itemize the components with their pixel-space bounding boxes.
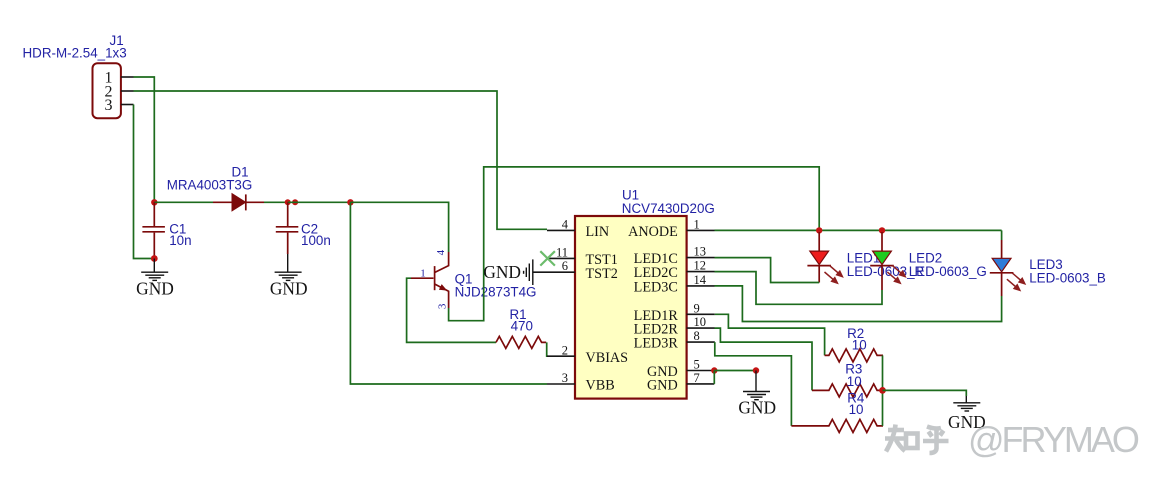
svg-text:GND: GND [483, 262, 521, 282]
svg-text:LED3C: LED3C [634, 280, 678, 296]
C1 label [169, 221, 186, 236]
wire ANODE rail [715, 229, 1002, 231]
wire Q1 emitter to anode rail [449, 167, 820, 321]
node rail-C1 [151, 199, 157, 205]
LED1 label [847, 250, 881, 265]
svg-text:HDR-M-2.54_1x3: HDR-M-2.54_1x3 [23, 45, 127, 60]
U1 pin 2 VBIAS [547, 343, 628, 366]
svg-text:8: 8 [694, 329, 700, 343]
R2 label [847, 326, 864, 341]
R4 label [847, 391, 865, 406]
wire anode to LED3 [1001, 230, 1003, 240]
LED2 value LED-0603_G [909, 264, 987, 279]
transistor Q1 [411, 252, 449, 308]
svg-text:2: 2 [562, 343, 568, 357]
svg-text:7: 7 [694, 371, 700, 385]
C2 value 100n [301, 233, 331, 248]
svg-text:@FRYMAO: @FRYMAO [968, 419, 1139, 460]
ground right of resistors [948, 396, 986, 432]
svg-text:LED3R: LED3R [634, 336, 679, 352]
svg-text:NJD2873T4G: NJD2873T4G [455, 285, 537, 300]
Q1 value NJD2873T4G [455, 285, 537, 300]
capacitor C2 [276, 202, 299, 254]
wire J1 pin2 to U1 LIN [134, 91, 548, 229]
svg-text:3: 3 [436, 303, 448, 309]
wire rail left segment [154, 201, 213, 203]
U1 pin 1 ANODE [628, 217, 714, 240]
watermark 知 [885, 425, 918, 452]
U1 pin 3 VBB [547, 371, 615, 394]
U1 pin 12 LED2C [634, 259, 715, 282]
Q1 pin 4 number [435, 249, 447, 255]
svg-text:1: 1 [694, 217, 700, 231]
U1 label [622, 188, 639, 203]
wire J1 pin3 to gnd node [134, 105, 155, 259]
D1 label [232, 165, 249, 180]
U1 pin 7 GND [647, 371, 714, 394]
U1 pin 10 LED2R [634, 315, 715, 338]
svg-text:3: 3 [562, 371, 568, 385]
svg-text:TST2: TST2 [586, 266, 618, 282]
wire R1 to U1 VBIAS [546, 342, 548, 356]
wire pin8 to R4 [715, 342, 792, 426]
svg-text:VBB: VBB [586, 378, 615, 394]
D1 value MRA4003T3G [167, 177, 253, 192]
wire LED3 cathode to pin14 [715, 286, 1002, 322]
LED3 value LED-0603_B [1029, 270, 1106, 285]
LED3 [990, 240, 1025, 296]
wire VBB branch down [350, 202, 547, 384]
J1 value HDR-M-2.54_1x3 [23, 45, 127, 60]
watermark 乎 [923, 427, 949, 454]
node U1 pin5 [711, 367, 717, 373]
watermark @FRYMAO [968, 419, 1139, 460]
connector J1 [93, 63, 121, 118]
node anode-LED1 [816, 227, 822, 233]
wire LED2 cathode to pin12 [715, 272, 883, 305]
svg-text:5: 5 [694, 358, 700, 372]
node rail-VBB [347, 199, 353, 205]
svg-text:100n: 100n [301, 233, 331, 248]
wire pin9 to R2 [715, 314, 825, 355]
wire pin5 to gnd [714, 370, 756, 372]
U1 pin 8 LED3R [634, 329, 715, 352]
U1 pin 6 TST2 [533, 259, 618, 282]
resistor R4 [791, 419, 883, 432]
U1 pin 9 LED1R [634, 301, 715, 324]
wire resistor bus to GND [883, 390, 967, 396]
node anode-LED2 [879, 227, 885, 233]
LED2 [870, 232, 905, 290]
U1 value NCV7430D20G [622, 201, 715, 216]
svg-text:10n: 10n [169, 233, 191, 248]
ground on TST2 (sideways) [483, 259, 532, 285]
svg-text:14: 14 [694, 273, 707, 287]
svg-text:NCV7430D20G: NCV7430D20G [622, 201, 715, 216]
R3 label [845, 362, 862, 377]
wire pin7 to pin5 [713, 371, 715, 384]
J1 label [110, 33, 124, 48]
svg-text:LIN: LIN [586, 224, 610, 240]
ground under C1 [136, 259, 174, 299]
C2 label [301, 221, 318, 236]
wire J1 pin1 to rail [134, 77, 155, 202]
Q1 label [455, 272, 473, 287]
C1 value 10n [169, 233, 191, 248]
J1 pin 3 [105, 97, 134, 114]
LED1 value LED-0603_R [847, 264, 925, 279]
svg-text:GND: GND [136, 279, 174, 299]
Q1 pin 3 number [436, 303, 448, 309]
U1 pin 11 TST1 [549, 245, 618, 268]
J1 pin 1 [105, 70, 134, 87]
svg-text:1: 1 [420, 267, 426, 279]
svg-text:LED-0603_B: LED-0603_B [1029, 270, 1106, 285]
svg-text:4: 4 [435, 249, 447, 255]
svg-text:6: 6 [562, 259, 568, 273]
resistor R1 [496, 336, 546, 348]
svg-text:4: 4 [562, 218, 569, 232]
svg-text:VBIAS: VBIAS [586, 350, 629, 366]
node resistor bus [879, 387, 886, 394]
svg-text:13: 13 [694, 245, 707, 259]
node C1 gnd [151, 255, 158, 262]
Q1 pin 1 number [420, 267, 426, 279]
wire pin10 to R3 [715, 328, 813, 390]
ground under U1 pins 5-7 [738, 371, 776, 418]
LED2 label [909, 250, 943, 265]
svg-text:10: 10 [694, 315, 707, 329]
svg-text:10: 10 [849, 402, 864, 417]
svg-text:3: 3 [105, 97, 113, 114]
U1 pin 5 GND [647, 358, 714, 381]
node gnd stem [753, 367, 759, 373]
diode D1 [213, 194, 264, 211]
node rail-C2 [285, 199, 291, 205]
svg-text:470: 470 [511, 318, 533, 333]
R3 value 10 [847, 374, 862, 389]
ground under C2 [270, 254, 308, 299]
U1 pin 14 LED3C [634, 273, 715, 296]
R1 value 470 [511, 318, 533, 333]
LED3 label [1029, 257, 1063, 272]
wire rail to Q1 collector [350, 202, 448, 252]
capacitor C1 [142, 202, 165, 258]
svg-text:10: 10 [847, 374, 862, 389]
R1 label [510, 307, 527, 322]
svg-text:10: 10 [852, 338, 867, 353]
wire rail D1 to C2 [264, 201, 288, 203]
node rail extra junction [292, 199, 298, 205]
svg-text:11: 11 [556, 245, 568, 259]
R2 value 10 [852, 338, 867, 353]
resistor R3 [812, 384, 883, 397]
resistor R2 [825, 349, 883, 362]
svg-text:ANODE: ANODE [628, 224, 678, 240]
R4 value 10 [849, 402, 864, 417]
LED1 [807, 232, 842, 283]
svg-text:GND: GND [738, 397, 776, 417]
wire Q1 base to R1 [407, 278, 496, 342]
svg-text:LED-0603_G: LED-0603_G [909, 264, 987, 279]
IC U1 body [575, 216, 687, 399]
svg-text:MRA4003T3G: MRA4003T3G [167, 177, 253, 192]
svg-text:12: 12 [694, 259, 707, 273]
svg-text:GND: GND [270, 279, 308, 299]
J1 pin 2 [105, 84, 134, 101]
svg-text:9: 9 [694, 301, 700, 315]
wire R2-R3-R4 right bus [882, 355, 884, 426]
no-connect X on TST1 [540, 251, 555, 265]
U1 pin 13 LED1C [634, 245, 715, 268]
wire rail C2 to VBB branch [288, 201, 351, 203]
wire LED1 cathode to pin13 [715, 258, 820, 283]
U1 pin 4 LIN [547, 218, 609, 240]
svg-text:GND: GND [647, 378, 678, 394]
